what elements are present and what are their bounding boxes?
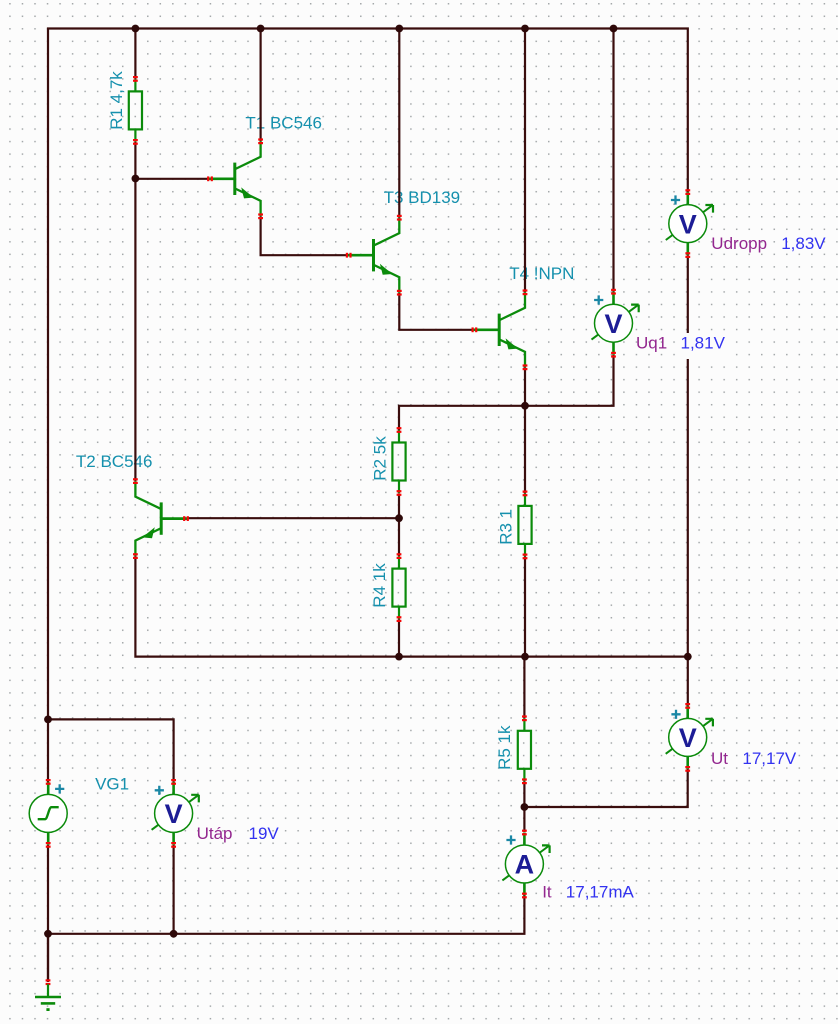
node mid rail right: [684, 653, 692, 661]
svg-text:Uq1: Uq1: [636, 333, 667, 352]
wire ground stem: [47, 934, 49, 982]
svg-text:R5 1k: R5 1k: [495, 725, 514, 770]
svg-text:1,81V: 1,81V: [681, 333, 726, 352]
wire T1 emitter to T3 base: [261, 216, 348, 255]
svg-text:17,17V: 17,17V: [742, 749, 797, 768]
wire T2 emitter to mid rail: [135, 556, 687, 657]
node top rail T4: [521, 25, 529, 33]
wire udropp bottom to ut top: [687, 255, 689, 706]
wire uq1 top: [612, 29, 614, 292]
svg-text:R1 4,7k: R1 4,7k: [107, 71, 126, 130]
resistor R1 4,7k: [129, 76, 142, 145]
node utap branch left: [44, 716, 52, 724]
svg-text:R4 1k: R4 1k: [370, 563, 389, 608]
node bottom rail utap: [170, 930, 178, 938]
wire uq1 bottom rail: [399, 355, 614, 431]
voltmeter Uq1: [592, 289, 639, 358]
node top rail Uq1: [610, 25, 618, 33]
wire T3 collector: [398, 29, 400, 218]
svg-text:VG1: VG1: [95, 775, 129, 794]
wire ammeter top: [523, 807, 525, 832]
wire T3 emitter to T4 base: [399, 293, 473, 330]
node R4 bottom: [395, 653, 403, 661]
wire utap branch: [48, 719, 174, 933]
transistor T4 !NPN: [472, 289, 528, 370]
wire R5 bottom: [523, 781, 525, 807]
resistor R3 1: [518, 491, 531, 560]
transistor T2 BC546 (mirrored): [133, 478, 189, 559]
svg-text:V: V: [604, 309, 622, 339]
voltmeter Ut: [666, 703, 713, 772]
node top rail T1: [257, 25, 265, 33]
node R1 bottom / T1 base: [132, 175, 140, 183]
wire T2 base: [187, 517, 399, 519]
svg-text:T4 !NPN: T4 !NPN: [509, 264, 574, 283]
node bottom rail left: [44, 930, 52, 938]
wire R3 top: [524, 406, 526, 494]
svg-text:17,17mA: 17,17mA: [566, 883, 635, 902]
svg-text:It: It: [542, 883, 552, 902]
svg-text:Udropp: Udropp: [711, 234, 767, 253]
svg-text:V: V: [679, 209, 697, 239]
svg-text:V: V: [679, 723, 697, 753]
node T2 base / R2 R4: [395, 514, 403, 522]
wire left rail top to VG1: [48, 29, 688, 982]
svg-text:1,83V: 1,83V: [781, 234, 826, 253]
svg-text:Ut: Ut: [711, 749, 728, 768]
svg-text:T3 BD139: T3 BD139: [384, 188, 461, 207]
wire R1 branch: [134, 29, 136, 482]
voltmeter Utap: [152, 779, 199, 848]
svg-text:T1 BC546: T1 BC546: [245, 113, 322, 132]
voltmeter Udropp: [666, 189, 713, 258]
node R3 bottom / R5 top: [521, 653, 529, 661]
wire R4 bottom: [398, 619, 400, 657]
node top rail T3: [395, 25, 403, 33]
svg-text:A: A: [515, 850, 535, 880]
wire ut bottom to R5 junction: [524, 769, 687, 807]
svg-text:T2 BC546: T2 BC546: [76, 452, 153, 471]
wire T4 emitter: [524, 367, 526, 406]
wire R5 top: [523, 657, 525, 719]
node top rail R1: [132, 25, 140, 33]
source VG1: [29, 779, 67, 848]
wire T1 base: [135, 178, 209, 180]
wire T1 collector: [260, 29, 262, 142]
ammeter It: [502, 830, 549, 899]
wire T4 collector: [524, 29, 526, 293]
wire ammeter bottom + bottom rail: [48, 895, 524, 934]
node T4 emitter rail: [521, 402, 529, 410]
svg-text:19V: 19V: [249, 824, 280, 843]
wire R2 bottom to R4 top: [398, 493, 400, 556]
resistor R2 5k: [392, 427, 405, 496]
svg-text:R2 5k: R2 5k: [371, 436, 390, 481]
svg-text:R3 1: R3 1: [497, 509, 516, 545]
svg-text:V: V: [165, 799, 183, 829]
node R5 bottom / Ut: [521, 803, 529, 811]
resistor R5 1k: [518, 715, 531, 784]
resistor R4 1k: [392, 553, 405, 622]
ground: [35, 979, 61, 1009]
svg-text:Utáp: Utáp: [197, 824, 233, 843]
transistor T3 BD139: [346, 215, 402, 296]
transistor T1 BC546: [207, 138, 263, 219]
wire R3 bottom: [524, 556, 526, 656]
label background for 1,81V over wire: [677, 333, 727, 359]
